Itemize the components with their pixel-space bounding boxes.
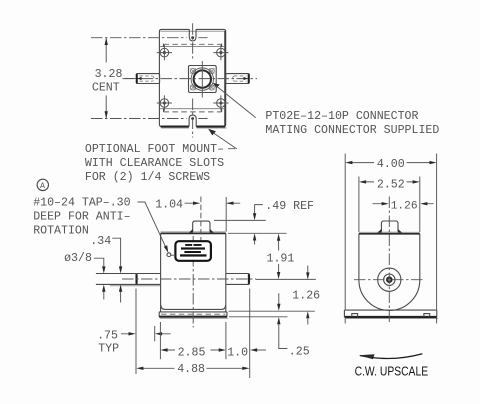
dim 1.04	[185, 202, 241, 204]
svg-text:MATING CONNECTOR SUPPLIED: MATING CONNECTOR SUPPLIED	[265, 124, 439, 137]
svg-text:2.85: 2.85	[178, 347, 206, 360]
front right shaft	[226, 274, 250, 285]
svg-text:1.26: 1.26	[292, 290, 320, 303]
front body left side	[160, 233, 162, 312]
front base plate	[159, 312, 227, 317]
vertical centerline top view	[192, 23, 194, 137]
svg-text:4.88: 4.88	[177, 363, 205, 376]
dim .75	[121, 333, 171, 335]
hidden slot line lower	[164, 111, 222, 113]
dim 1.26 side	[373, 203, 434, 205]
svg-text:PT02E–12–10P CONNECTOR: PT02E–12–10P CONNECTOR	[265, 110, 418, 123]
extension line body top right	[228, 232, 287, 234]
slot centerline lower	[91, 118, 208, 120]
flange screw hole top-right	[209, 68, 214, 73]
note foot mount leader line	[214, 133, 237, 149]
side stub	[381, 221, 398, 231]
note PT02E leader arrowhead	[213, 83, 220, 88]
extension body left down	[159, 322, 161, 359]
side base bottom shadow	[344, 316, 436, 318]
main horizontal centerline top view	[123, 78, 258, 80]
flange screw hole top-left	[190, 68, 195, 73]
svg-text:1.91: 1.91	[267, 252, 295, 265]
extension 4.00 left	[344, 154, 346, 324]
left shaft end shadow	[136, 274, 138, 284]
top view top notch	[189, 29, 196, 41]
side shaft center	[386, 276, 393, 283]
svg-text:A: A	[40, 182, 45, 191]
right tab hidden hole	[234, 75, 246, 77]
svg-text:#10–24 TAP–.30: #10–24 TAP–.30	[33, 197, 130, 210]
extension .75 right	[154, 326, 156, 341]
dim 4.00	[350, 162, 432, 164]
side body top edge	[359, 231, 420, 233]
front base bottom shadow	[159, 316, 227, 318]
corner hole bottom-left	[157, 95, 172, 110]
stub right foot	[210, 229, 214, 233]
hidden slot line upper	[164, 43, 222, 45]
slot centerline upper	[91, 37, 208, 39]
side stub right foot	[398, 229, 402, 233]
svg-text:1.04: 1.04	[155, 198, 183, 211]
tap note leader arrowhead	[164, 245, 169, 253]
svg-text:4.00: 4.00	[377, 158, 405, 171]
side stub left foot	[377, 229, 381, 233]
top view foot plate outline	[159, 29, 225, 126]
side shaft circle mid	[384, 274, 395, 285]
side horizontal centerline	[354, 279, 425, 281]
svg-text:.75: .75	[97, 329, 118, 342]
anti-rotation tap hole	[167, 253, 171, 257]
flange screw hole bottom-right	[209, 85, 214, 90]
balloon A circle	[37, 179, 48, 190]
connector barrel bold circle	[194, 70, 211, 87]
svg-text:OPTIONAL FOOT MOUNT–: OPTIONAL FOOT MOUNT–	[85, 143, 224, 156]
front left shaft	[96, 274, 161, 285]
stub flange shadow	[189, 231, 213, 233]
nameplate text lines	[185, 244, 192, 246]
front body right side	[225, 233, 227, 312]
svg-text:2.52: 2.52	[377, 178, 405, 191]
dim 2.85	[165, 349, 222, 351]
corner hole top-right	[213, 45, 228, 60]
dim 4.88	[141, 367, 245, 369]
side shaft circle outer	[378, 268, 401, 291]
note PT02E leader line	[216, 86, 256, 118]
dim 3.28 arrow down	[105, 111, 108, 118]
shaft bottom shadow	[110, 285, 160, 287]
svg-text:CENT: CENT	[92, 82, 120, 95]
side base plate	[344, 310, 436, 317]
extension line stub top right	[214, 219, 266, 221]
top view bottom edge shadow	[161, 125, 226, 127]
side vertical centerline	[388, 197, 390, 323]
front base hidden line	[161, 313, 226, 315]
dim 3.28 arrow up	[105, 38, 108, 45]
flange screw hole bottom-left	[190, 85, 195, 90]
note foot mount leader arrowhead	[208, 129, 216, 136]
svg-text:.34: .34	[90, 235, 111, 248]
right tab center drill mark	[244, 77, 248, 81]
tap note leader	[138, 202, 167, 250]
bottom notch center hole	[191, 117, 194, 120]
extension 2.52 left	[358, 177, 360, 233]
svg-text:3.28: 3.28	[95, 68, 123, 81]
svg-text:C.W. UPSCALE: C.W. UPSCALE	[355, 363, 429, 378]
dim 1.91	[278, 240, 280, 274]
dim 2.52	[364, 181, 416, 183]
front horizontal centerline	[122, 278, 256, 280]
right shaft end shadow	[248, 274, 250, 284]
dimension 3.28 CENT line	[105, 38, 107, 118]
side body outline	[359, 234, 420, 311]
side base slot right	[424, 314, 430, 317]
extension cavity bottom right	[229, 310, 315, 312]
dim .25	[279, 293, 288, 348]
svg-text:.25: .25	[289, 345, 310, 358]
side base slot left	[352, 314, 358, 317]
dim 1.26 front	[307, 266, 309, 325]
dim .49 REF bracket	[255, 205, 263, 214]
extension 2.52 right	[419, 177, 421, 233]
nameplate label	[175, 241, 211, 261]
extension base bottom right	[229, 316, 288, 318]
top notch center hole	[191, 36, 194, 39]
front connector stub	[193, 221, 210, 231]
cw upscale arrowhead	[359, 354, 375, 359]
housing edge line lower	[160, 108, 225, 110]
svg-text:ø3/8: ø3/8	[64, 252, 92, 265]
front body top edge	[161, 231, 226, 233]
side stub flange shadow	[378, 231, 402, 233]
connector mounting flange square	[189, 66, 217, 93]
svg-text:ROTATION: ROTATION	[33, 225, 89, 238]
front vertical centerline	[192, 236, 194, 328]
corner hole bottom-right	[213, 95, 228, 110]
cw upscale arrow arc	[360, 354, 422, 359]
slot corner ticks	[164, 44, 222, 112]
corner hole top-left	[157, 45, 172, 60]
extension shaft right end down	[249, 289, 251, 379]
svg-text:TYP: TYP	[98, 342, 119, 355]
connector vertical centerline	[201, 61, 203, 98]
left shaft tab	[136, 74, 159, 84]
stub centerline	[200, 197, 202, 241]
svg-text:1.26: 1.26	[391, 201, 418, 213]
extension body right down	[225, 322, 227, 359]
housing edge line upper	[160, 45, 225, 47]
svg-text:FOR (2) 1/4 SCREWS: FOR (2) 1/4 SCREWS	[85, 171, 210, 184]
extension line body right top	[225, 197, 227, 232]
svg-text:.49 REF: .49 REF	[265, 200, 314, 213]
svg-text:WITH CLEARANCE SLOTS: WITH CLEARANCE SLOTS	[85, 157, 224, 170]
extension 4.00 right	[436, 154, 438, 324]
right shaft tab	[226, 74, 250, 84]
left tab hidden hole	[140, 75, 153, 77]
svg-text:DEEP FOR ANTI–: DEEP FOR ANTI–	[33, 211, 130, 224]
tap hole tick to label	[171, 254, 175, 256]
front cavity bottom	[161, 305, 226, 309]
svg-text:1.0: 1.0	[227, 347, 248, 360]
connector barrel outer circle	[191, 68, 213, 90]
left tab center drill mark	[138, 77, 142, 81]
leader from 3.28 to shaft centerline	[125, 78, 136, 80]
centerline extension solid right	[256, 278, 316, 280]
extension shaft left end down	[135, 289, 137, 375]
top view bottom notch	[189, 115, 196, 126]
stub left foot	[189, 229, 193, 233]
